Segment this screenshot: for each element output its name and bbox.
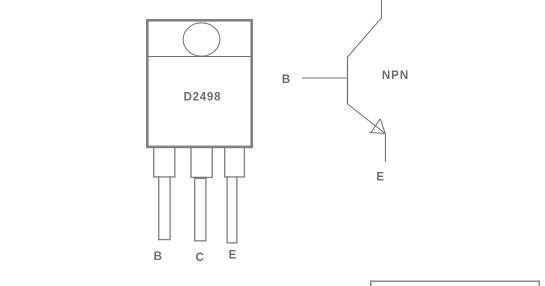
- pin C lead: [195, 177, 206, 241]
- table frame fragment bottom-right: [371, 281, 540, 286]
- npn symbol collector wire: [348, 0, 382, 57]
- svg-text:D2498: D2498: [184, 92, 222, 104]
- pin E lead: [227, 176, 237, 243]
- emitter lead wire: [384, 134, 386, 163]
- svg-text:NPN: NPN: [382, 70, 409, 82]
- pin C lead top cap: [194, 177, 207, 179]
- package mounting hole: [183, 23, 220, 56]
- transistor Q1 package pin stub C: [191, 146, 212, 177]
- pin B lead: [159, 176, 170, 240]
- npn symbol emitter wire: [348, 104, 386, 134]
- package tab separator line: [149, 56, 252, 58]
- svg-text:B: B: [282, 74, 290, 86]
- transistor Q1 package pin stub E: [225, 146, 245, 177]
- svg-text:E: E: [229, 250, 237, 262]
- svg-text:E: E: [376, 172, 384, 184]
- npn emitter arrow head: [369, 119, 385, 134]
- transistor Q1 package body outline: [147, 20, 251, 147]
- npn symbol base bar: [347, 57, 349, 105]
- svg-text:B: B: [154, 251, 162, 263]
- transistor Q1 package pin stub B: [154, 146, 175, 177]
- npn symbol base wire: [302, 77, 348, 79]
- svg-text:C: C: [195, 252, 203, 264]
